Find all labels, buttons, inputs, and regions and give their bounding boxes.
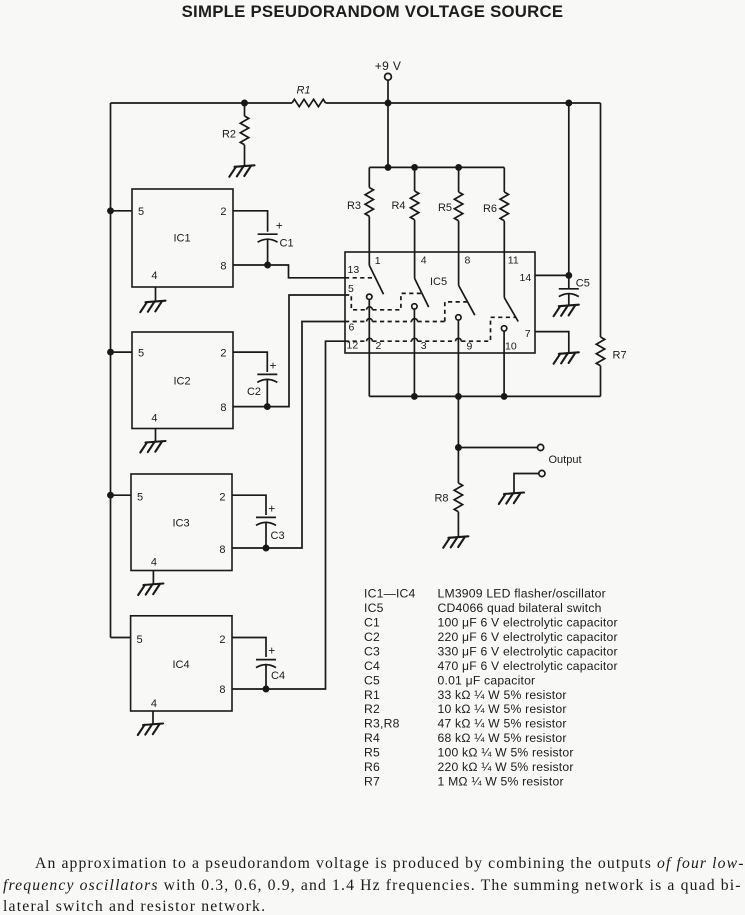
svg-text:C5: C5 <box>364 673 380 687</box>
svg-text:R1: R1 <box>296 85 310 97</box>
svg-text:4: 4 <box>151 270 157 282</box>
node: C3 / IC3 pin8 <box>263 545 268 550</box>
resistor R7 <box>596 103 604 396</box>
svg-text:8: 8 <box>219 544 225 556</box>
wire: IC2 pin4 <box>155 429 157 442</box>
control line from pin5 to S2 <box>345 293 421 309</box>
svg-text:6: 6 <box>349 322 355 334</box>
svg-text:8: 8 <box>220 261 226 273</box>
svg-text:R1: R1 <box>364 688 380 702</box>
svg-text:100 kΩ ¼ W 5% resistor: 100 kΩ ¼ W 5% resistor <box>438 746 574 760</box>
svg-text:+: + <box>270 359 277 373</box>
wire: IC1 pin8 to IC5 pin13 <box>233 265 345 278</box>
svg-text:R5: R5 <box>364 746 380 760</box>
wire: IC5 pin7 to ground <box>535 332 569 353</box>
svg-text:R8: R8 <box>434 493 448 505</box>
svg-text:5: 5 <box>137 492 143 504</box>
ground: under C5 <box>554 305 579 317</box>
resistor R6 <box>500 167 508 252</box>
control line from pin13 to S1 <box>345 277 375 279</box>
svg-text:33 kΩ ¼ W 5% resistor: 33 kΩ ¼ W 5% resistor <box>438 688 567 702</box>
svg-text:9: 9 <box>467 341 473 353</box>
ground: IC2 <box>140 441 165 453</box>
capacitor C1 <box>258 234 278 265</box>
wire: S3 output to bottom bus (pin9) <box>457 320 459 396</box>
node: C1 / IC1 pin8 <box>265 262 270 267</box>
wire: IC4 pin4 <box>152 711 154 724</box>
svg-text:+: + <box>268 644 275 658</box>
svg-text:5: 5 <box>138 348 144 360</box>
svg-text:C4: C4 <box>271 670 285 682</box>
control line from pin12 to S4 <box>345 317 515 341</box>
ground: under R8 <box>443 536 468 548</box>
svg-text:C3: C3 <box>364 644 380 658</box>
ground: IC1 <box>140 301 165 313</box>
switch S2 input lead (pin4) <box>414 252 416 278</box>
wire: IC1 pin4 <box>155 287 157 301</box>
svg-text:220 kΩ ¼ W 5% resistor: 220 kΩ ¼ W 5% resistor <box>438 760 574 774</box>
caption paragraph <box>3 853 745 915</box>
svg-text:IC3: IC3 <box>172 518 189 530</box>
op-amp IC1 box <box>132 189 233 287</box>
bilateral switch IC5 box <box>345 252 535 353</box>
svg-text:+: + <box>268 502 275 516</box>
svg-text:8: 8 <box>219 684 225 696</box>
switch S4 input lead (pin11) <box>503 252 505 298</box>
wire: IC3 pin4 <box>152 571 154 584</box>
svg-text:IC5: IC5 <box>430 276 447 288</box>
svg-text:C5: C5 <box>576 278 590 290</box>
svg-text:Output: Output <box>549 454 582 466</box>
capacitor C2 <box>257 374 277 406</box>
svg-text:12: 12 <box>347 340 359 352</box>
svg-text:8: 8 <box>220 402 226 414</box>
svg-text:R6: R6 <box>483 203 497 215</box>
svg-text:330 μF 6 V electrolytic capaci: 330 μF 6 V electrolytic capacitor <box>438 644 618 658</box>
capacitor C4 <box>256 660 276 689</box>
svg-text:2: 2 <box>220 206 226 218</box>
ground: under R2 <box>229 165 254 177</box>
node: bus at R4 <box>412 165 417 170</box>
op-amp IC4 box <box>131 616 232 711</box>
node: left bus at IC3 pin5 <box>108 493 113 498</box>
wire: return terminal to ground <box>514 474 539 493</box>
svg-text:C2: C2 <box>247 386 261 398</box>
capacitor C5 <box>559 275 579 304</box>
wire: IC1 pin2 to C1 <box>233 211 268 232</box>
node: bottom bus at S2 <box>412 394 417 399</box>
svg-text:R6: R6 <box>364 760 380 774</box>
svg-text:5: 5 <box>348 283 354 295</box>
capacitor C3 <box>256 517 276 548</box>
wire: S4 output to bottom bus (pin10) <box>503 331 505 396</box>
svg-text:2: 2 <box>376 340 382 352</box>
wire: +9V feed down to R3-R6 bus <box>387 103 389 167</box>
svg-text:47 kΩ ¼ W 5% resistor: 47 kΩ ¼ W 5% resistor <box>438 717 567 731</box>
svg-text:3: 3 <box>421 340 427 352</box>
ground: pin7 <box>554 352 579 364</box>
svg-text:100 μF 6 V electrolytic capaci: 100 μF 6 V electrolytic capacitor <box>438 615 618 629</box>
ground: IC4 <box>138 724 163 736</box>
wire: IC3 pin8 to IC5 pin6 <box>232 322 345 549</box>
wire: top rail right segment <box>326 102 601 104</box>
svg-text:R4: R4 <box>391 200 405 212</box>
wire: C5 feed from top rail <box>568 103 570 275</box>
wire: to output terminal <box>458 447 537 449</box>
switch S3 contact <box>456 315 461 320</box>
svg-text:4: 4 <box>151 413 157 425</box>
svg-text:C1: C1 <box>364 615 380 629</box>
svg-text:+: + <box>276 219 283 233</box>
wire: IC5 pin14 <box>535 274 569 276</box>
switch S3 input lead (pin8) <box>458 252 460 285</box>
node: bus at R5 <box>456 165 461 170</box>
node: +9V on top rail <box>385 100 390 105</box>
svg-text:R2: R2 <box>222 129 236 141</box>
svg-text:C4: C4 <box>364 659 380 673</box>
op-amp IC3 box <box>131 474 232 571</box>
wire: IC2 pin2 to C2 <box>233 352 267 372</box>
node: left bus at IC1 pin5 <box>108 208 113 213</box>
wire: output tap down from bus <box>457 396 459 447</box>
wire: IC3 pin2 to C3 <box>232 495 266 515</box>
svg-text:2: 2 <box>220 348 226 360</box>
node: bottom bus at S3 <box>456 394 461 399</box>
svg-text:C2: C2 <box>364 630 380 644</box>
wire: R3-R6 top bus <box>369 166 504 168</box>
svg-text:IC4: IC4 <box>172 659 189 671</box>
switch S1 contact <box>367 294 372 299</box>
switch S4 contact <box>501 326 506 331</box>
svg-text:2: 2 <box>219 492 225 504</box>
svg-text:7: 7 <box>525 328 531 340</box>
svg-text:13: 13 <box>348 264 360 276</box>
ground: output return <box>499 493 524 505</box>
switch S3 arm <box>459 285 475 315</box>
op-amp IC2 box <box>132 332 233 429</box>
power terminal +9V <box>385 73 392 103</box>
svg-text:470 μF 6 V electrolytic capaci: 470 μF 6 V electrolytic capacitor <box>438 659 618 673</box>
ground: IC3 <box>138 584 163 596</box>
wire: S2 output to bottom bus (pin3) <box>413 309 415 396</box>
output terminal <box>538 444 544 450</box>
wire: IC3 pin5 <box>111 494 132 496</box>
node: C4 / IC4 pin8 <box>263 686 268 691</box>
svg-text:2: 2 <box>219 634 225 646</box>
switch S2 contact <box>412 304 417 309</box>
svg-text:IC1—IC4: IC1—IC4 <box>364 587 416 601</box>
node: left bus at IC2 pin5 <box>108 350 113 355</box>
svg-text:1 MΩ ¼ W 5% resistor: 1 MΩ ¼ W 5% resistor <box>438 775 564 789</box>
svg-text:R7: R7 <box>613 350 627 362</box>
resistor R8 <box>454 448 462 537</box>
svg-text:CD4066 quad bilateral switch: CD4066 quad bilateral switch <box>438 601 602 615</box>
svg-text:4: 4 <box>421 255 427 267</box>
node: bus at +9V feed <box>385 165 390 170</box>
wire: left bus <box>110 103 112 638</box>
svg-text:0.01 μF capacitor: 0.01 μF capacitor <box>438 673 536 687</box>
svg-text:C1: C1 <box>280 238 294 250</box>
output return terminal <box>539 470 545 476</box>
switch S1 input lead (pin1) <box>368 252 370 265</box>
svg-text:R4: R4 <box>364 731 380 745</box>
svg-text:IC5: IC5 <box>364 601 384 615</box>
svg-text:5: 5 <box>138 206 144 218</box>
wire: left bus corner to IC4 pin5 <box>111 637 131 639</box>
switch S2 arm <box>415 278 429 307</box>
svg-text:R2: R2 <box>364 702 380 716</box>
resistor R2 <box>240 103 248 165</box>
svg-text:11: 11 <box>508 255 519 267</box>
svg-text:8: 8 <box>465 255 471 267</box>
svg-text:IC1: IC1 <box>173 233 190 245</box>
wire: top rail left segment <box>111 102 293 104</box>
svg-text:10 kΩ ¼ W 5% resistor: 10 kΩ ¼ W 5% resistor <box>438 702 567 716</box>
svg-text:5: 5 <box>137 634 143 646</box>
svg-text:R3: R3 <box>347 200 361 212</box>
wire: bottom bus <box>369 395 600 397</box>
svg-text:14: 14 <box>520 272 532 284</box>
wire: IC2 pin5 <box>111 351 133 353</box>
svg-text:LM3909 LED flasher/oscillator: LM3909 LED flasher/oscillator <box>438 587 606 601</box>
node: pin14 / C5 <box>566 273 571 278</box>
svg-text:4: 4 <box>151 698 157 710</box>
svg-text:220 μF 6 V electrolytic capaci: 220 μF 6 V electrolytic capacitor <box>438 630 618 644</box>
switch S1 arm <box>369 265 383 294</box>
wire: IC2 pin8 to IC5 pin5 <box>233 295 345 407</box>
svg-text:R3,R8: R3,R8 <box>364 717 400 731</box>
svg-text:1: 1 <box>375 255 381 267</box>
svg-text:C3: C3 <box>271 530 285 542</box>
svg-text:4: 4 <box>151 557 157 569</box>
svg-text:+9 V: +9 V <box>375 59 402 73</box>
resistor R5 <box>454 167 462 252</box>
wire: S1 output to bottom bus (pin2) <box>368 300 370 397</box>
switch S4 arm <box>504 298 518 322</box>
wire: IC4 pin8 to IC5 pin12 <box>232 341 345 689</box>
node: bottom bus at S4 <box>502 394 507 399</box>
node: R2 top rail junction <box>242 100 247 105</box>
svg-text:IC2: IC2 <box>173 376 190 388</box>
svg-text:R5: R5 <box>438 202 452 214</box>
svg-text:68 kΩ ¼ W 5% resistor: 68 kΩ ¼ W 5% resistor <box>438 731 567 745</box>
wire: IC1 pin5 <box>111 210 133 212</box>
svg-text:R7: R7 <box>364 775 380 789</box>
resistor R3 <box>365 167 373 252</box>
resistor R1 <box>292 99 326 106</box>
node: output junction <box>456 445 461 450</box>
resistor R4 <box>410 167 418 252</box>
node: C2 / IC2 pin8 <box>265 404 270 409</box>
svg-text:10: 10 <box>505 341 517 353</box>
control line from pin6 to S3 <box>345 302 468 322</box>
node: C5 feed at top rail <box>566 100 571 105</box>
wire: IC4 pin2 to C4 <box>232 638 266 658</box>
